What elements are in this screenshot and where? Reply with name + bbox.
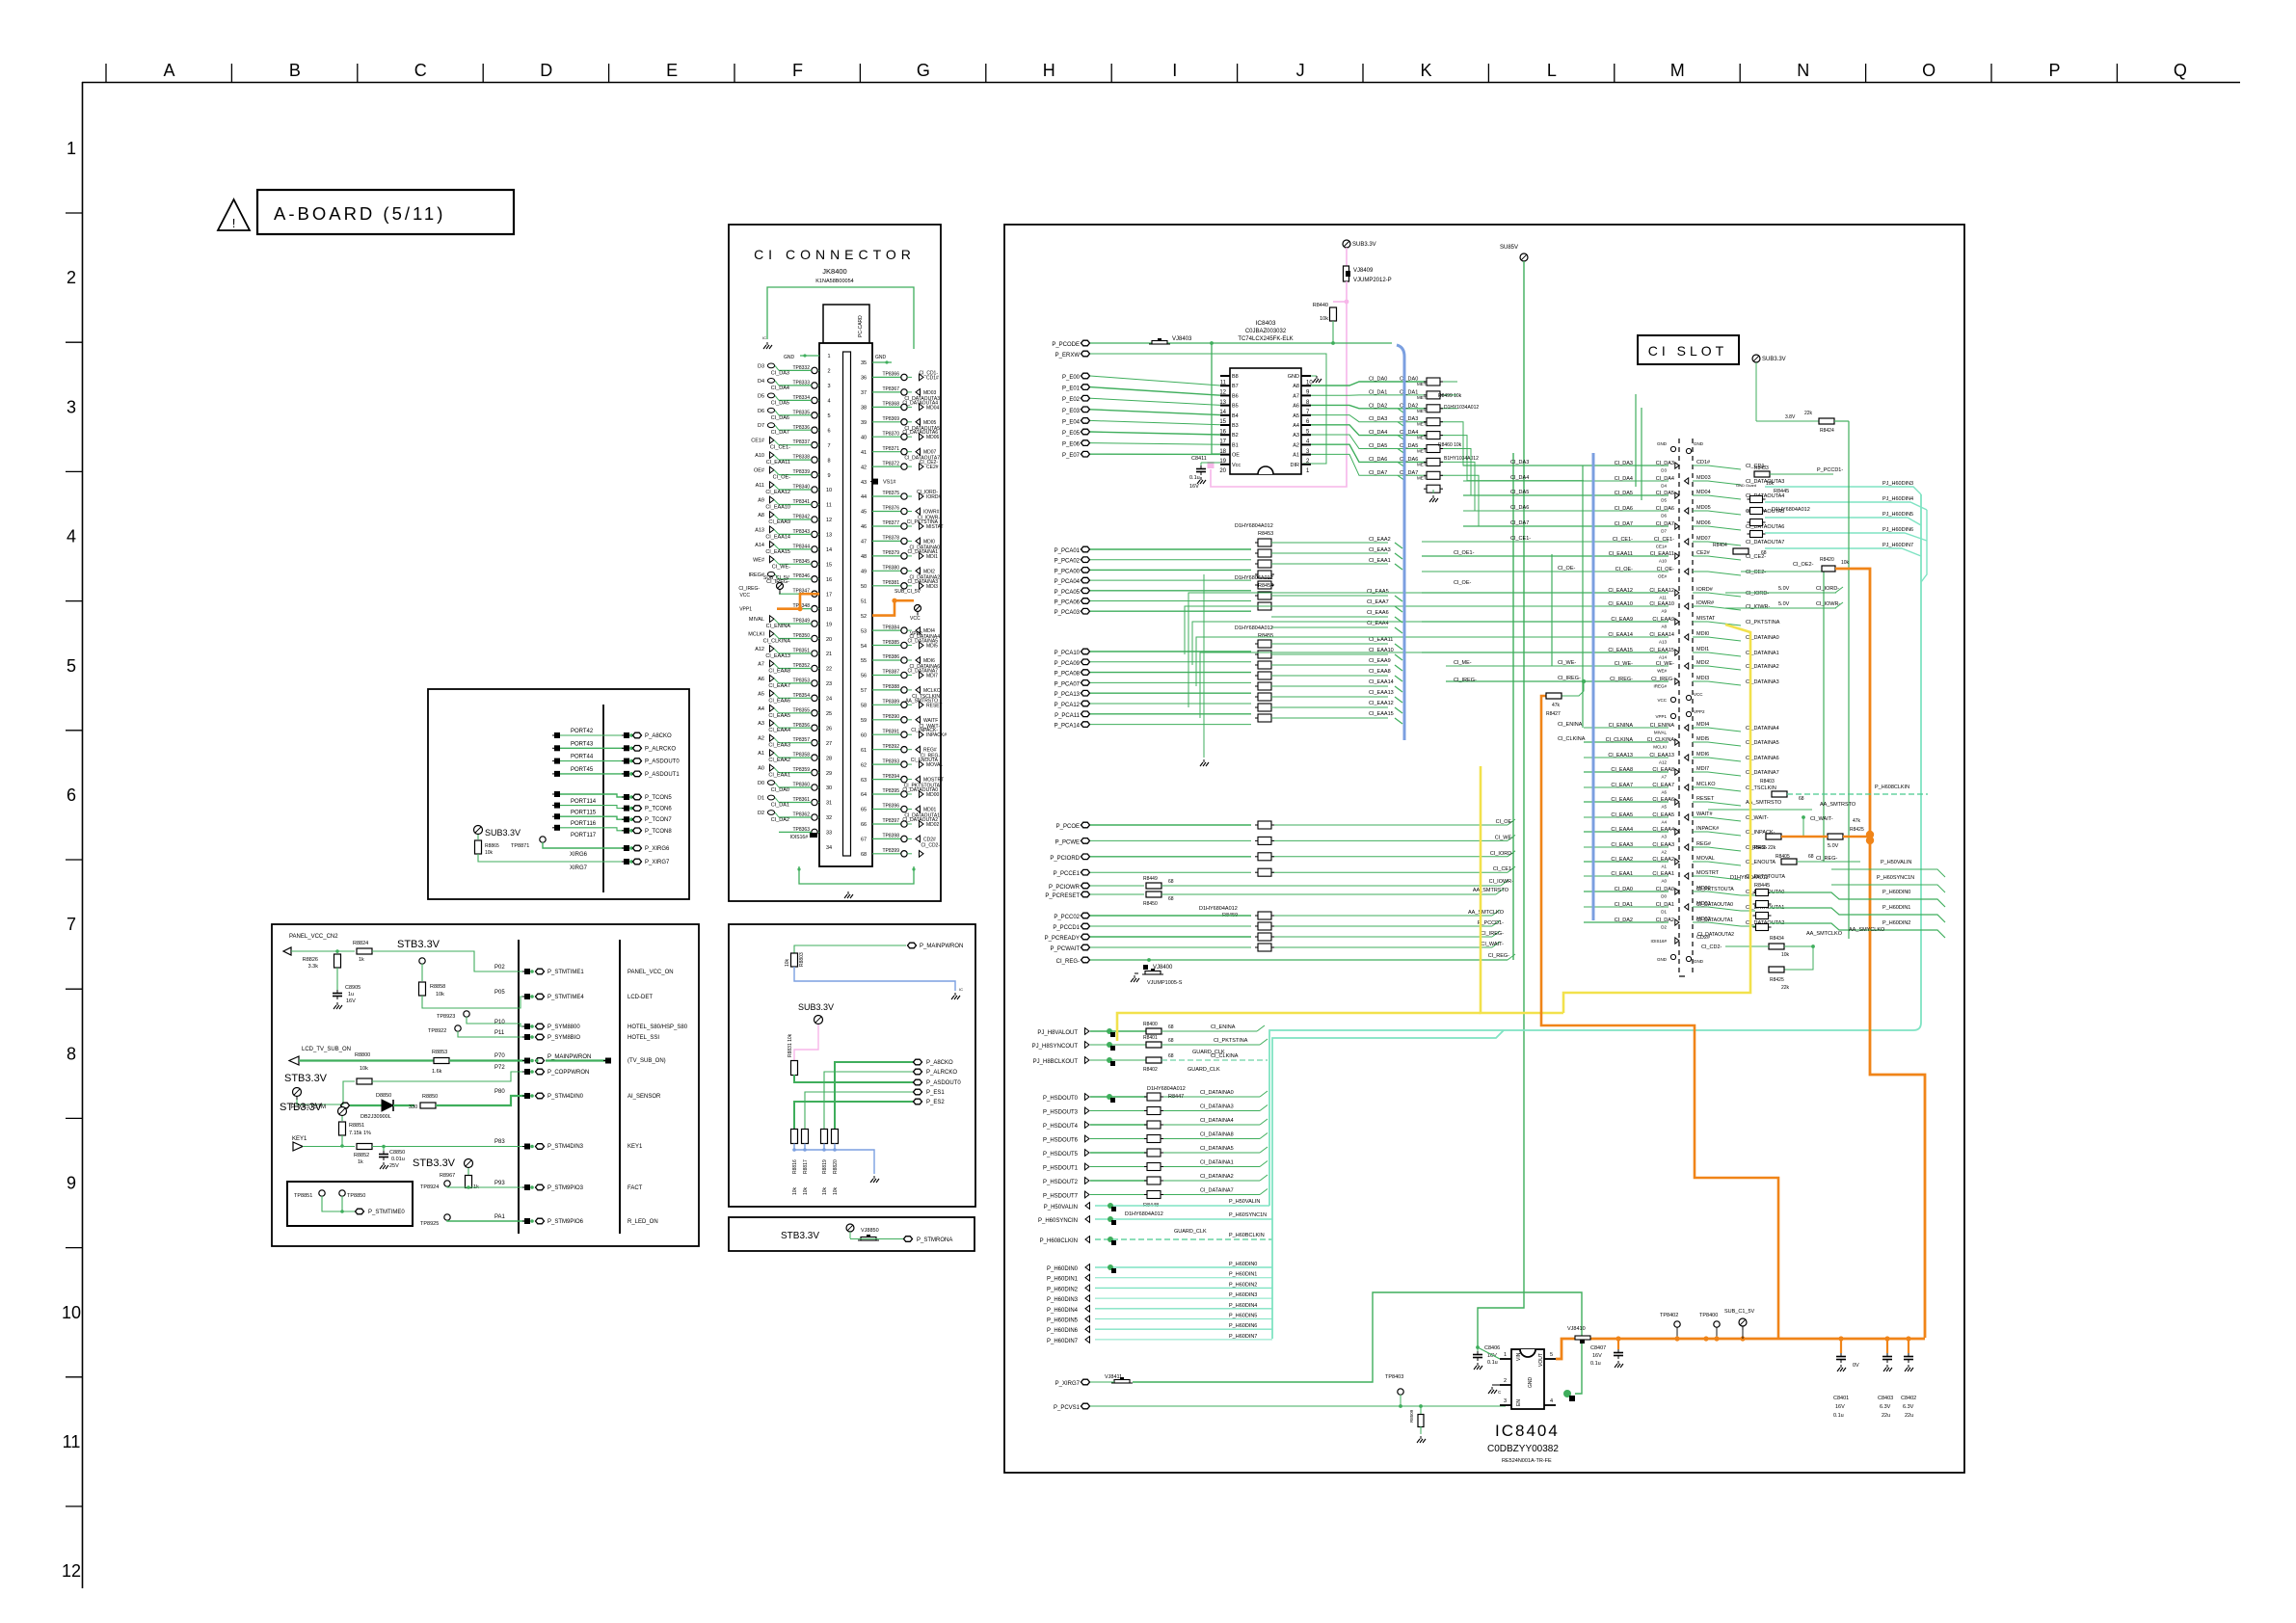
svg-text:CI_ENINA: CI_ENINA [1211,1024,1236,1030]
svg-text:R8404: R8404 [1713,543,1727,548]
svg-text:SU85V: SU85V [1500,245,1518,251]
svg-text:CI_DA4: CI_DA4 [1656,476,1674,482]
svg-text:MOSTRT: MOSTRT [1696,870,1720,876]
svg-text:R8824: R8824 [353,941,368,946]
svg-text:TP8355: TP8355 [792,707,810,713]
svg-text:CI_EAA15: CI_EAA15 [1608,648,1633,653]
svg-text:TP8395: TP8395 [882,788,899,794]
svg-text:D0: D0 [758,781,764,786]
svg-text:D4: D4 [1661,484,1667,489]
svg-text:TP8403: TP8403 [1385,1374,1403,1380]
buffer row CI_DA0 [1584,891,1669,892]
svg-text:D1: D1 [1661,910,1667,915]
svg-text:1: 1 [827,354,830,359]
svg-text:3.3k: 3.3k [308,964,319,970]
orange net right 5V [1835,569,1925,1338]
buffer row CI_CE1- [1422,541,1669,543]
IC8403 pin 11 B8 [1220,375,1230,377]
svg-text:1.6k: 1.6k [432,1069,442,1075]
resistor 10k P72 [357,1078,372,1084]
svg-text:P_HSDOUT0: P_HSDOUT0 [1043,1096,1079,1102]
wire P_XRSTSTM to diode [350,1104,382,1106]
port row PORT45 [554,771,560,777]
svg-text:TP8386: TP8386 [882,654,899,660]
SUB3.3V right power [1752,355,1760,362]
svg-text:0.1u: 0.1u [1487,1360,1498,1366]
P_STMTIME0 pin [356,1209,364,1214]
svg-text:D2: D2 [758,811,764,816]
svg-text:P_H60DIN5: P_H60DIN5 [1047,1318,1079,1324]
svg-text:B2: B2 [1232,433,1239,439]
svg-text:CI_DATAINA8: CI_DATAINA8 [1200,1132,1234,1138]
svg-text:TP8352: TP8352 [792,663,810,669]
SU85V vertical feed [1478,261,1524,1347]
svg-text:P_E05: P_E05 [1062,431,1081,437]
resistor R8967 [467,1168,469,1175]
svg-text:CI_DA3: CI_DA3 [1615,461,1633,466]
green bundle vertical B [1582,466,1584,728]
CI_EAA4 wire [1271,626,1388,628]
svg-text:CI_DA6: CI_DA6 [1369,457,1387,463]
svg-text:15: 15 [826,563,832,569]
svg-text:CI_WAIT-: CI_WAIT- [1746,815,1769,821]
svg-text:GND: GND [1694,959,1704,964]
svg-text:P_HSDOUT2: P_HSDOUT2 [1043,1180,1079,1185]
svg-text:47k: 47k [1552,703,1561,708]
svg-text:TP8367: TP8367 [882,386,899,392]
svg-text:CI_EAA11: CI_EAA11 [1609,551,1633,557]
svg-text:VJ8850: VJ8850 [861,1228,879,1234]
IC8403 pin 15 B4 [1220,414,1230,416]
svg-text:AA_SMYCLKO: AA_SMYCLKO [1849,927,1885,933]
svg-text:A2: A2 [1661,850,1667,855]
svg-text:CI_IORD-: CI_IORD- [917,490,938,495]
svg-text:TP8399: TP8399 [882,848,899,854]
svg-text:45: 45 [861,510,867,516]
svg-text:P_STMRONA: P_STMRONA [917,1237,952,1243]
svg-text:VPP2: VPP2 [1694,709,1705,714]
svg-text:P_H60DIN6: P_H60DIN6 [1229,1323,1257,1329]
svg-text:D1HY6804A012: D1HY6804A012 [1235,575,1273,581]
P_H60DIN0-2 wires right [1770,890,1945,938]
buffer row CI_EAA15 [1422,652,1669,653]
buffer row CI_CLKINA [1584,741,1669,743]
buffer row CI_EAA7 [1584,786,1669,788]
svg-text:CI_EAA12: CI_EAA12 [765,490,790,495]
svg-text:TP8363: TP8363 [792,827,810,833]
wire P70 continues to square [546,1059,605,1061]
svg-text:SUB3.3V: SUB3.3V [1762,357,1786,362]
svg-text:CI_EAA10: CI_EAA10 [1608,601,1633,607]
svg-text:CI_CE1-: CI_CE1- [1613,537,1633,543]
svg-text:VJ8403: VJ8403 [1172,336,1192,342]
svg-text:CI_EAA1: CI_EAA1 [1369,558,1391,564]
svg-text:5: 5 [67,656,76,676]
svg-text:PJ_H8BCLKOUT: PJ_H8BCLKOUT [1033,1059,1079,1065]
svg-text:CI_ENOUTA: CI_ENOUTA [911,758,939,763]
svg-text:R8425: R8425 [1770,977,1784,983]
svg-text:R8447: R8447 [1168,1094,1184,1100]
VCC pins mid [1670,697,1675,702]
svg-text:40: 40 [861,435,867,440]
svg-text:P_E07: P_E07 [1062,453,1081,459]
ground bottom of connector [847,891,849,894]
svg-text:CI_EAA4: CI_EAA4 [768,728,790,733]
svg-text:MCLKI: MCLKI [748,632,764,638]
svg-text:1k: 1k [358,1159,363,1165]
svg-text:IC8403: IC8403 [1256,320,1276,327]
svg-text:TP8385: TP8385 [882,640,899,646]
svg-text:CI_EAA12: CI_EAA12 [1608,588,1633,594]
test point sub box [287,1182,413,1226]
pin 3 TP and wire [812,397,817,403]
svg-text:CI_DA7: CI_DA7 [1656,521,1674,527]
svg-text:P80: P80 [494,1089,505,1095]
svg-text:CI_EAA1: CI_EAA1 [768,773,790,779]
svg-text:IC8404: IC8404 [1495,1422,1560,1440]
wire to PA1 [447,1220,525,1221]
P_H60DIN2 right wire [1770,923,1945,938]
svg-text:P_STM4DIN0: P_STM4DIN0 [547,1094,584,1100]
svg-text:R8851: R8851 [349,1123,364,1129]
svg-text:P_H60DIN4: P_H60DIN4 [1229,1303,1257,1309]
svg-text:P_PCA13: P_PCA13 [1055,692,1081,698]
svg-text:A5: A5 [1661,805,1667,810]
svg-text:D1HY6804A012: D1HY6804A012 [1235,523,1273,529]
svg-text:6: 6 [67,785,76,805]
svg-text:D3: D3 [1661,468,1667,473]
svg-text:P_H60DIN7: P_H60DIN7 [1229,1334,1257,1340]
pin 14 TP and wire [812,561,817,567]
wire TP8923 to P10 [467,1017,525,1026]
svg-text:MCLKI: MCLKI [1653,745,1667,750]
svg-text:P93: P93 [494,1181,505,1186]
pin 24 TP and wire [812,710,817,716]
svg-text:D4: D4 [758,379,764,385]
pin 62 wire [872,763,901,765]
svg-text:CI_EAA7: CI_EAA7 [768,683,790,689]
CI_DA7 wire [1311,454,1426,475]
svg-text:P_H60DIN2: P_H60DIN2 [1047,1287,1079,1292]
svg-text:21: 21 [826,652,832,657]
svg-text:P11: P11 [494,1030,505,1036]
svg-text:P_HSDOUT5: P_HSDOUT5 [1043,1152,1079,1157]
CI_EAA12 wire [1271,706,1388,708]
svg-text:D5: D5 [1661,498,1667,503]
svg-text:CI_WE-: CI_WE- [1558,660,1576,666]
ruler column ticks [105,64,107,82]
svg-text:CI_EAA7: CI_EAA7 [1652,783,1674,788]
svg-text:P_H60DIN4: P_H60DIN4 [1047,1308,1079,1314]
pin 2 TP and wire [812,383,817,388]
svg-text:CI_DA1: CI_DA1 [1400,389,1418,395]
svg-text:CI_EAA11: CI_EAA11 [766,460,790,466]
svg-text:CI_EAA8: CI_EAA8 [768,669,790,675]
buffer row CI_OE- [1422,571,1669,572]
svg-text:P_PCIOWR: P_PCIOWR [1049,885,1081,891]
svg-text:STB3.3V: STB3.3V [284,1073,328,1084]
svg-text:P_TCON7: P_TCON7 [645,817,672,823]
buffer row CI_DA5 [1463,494,1669,496]
svg-text:CI_DA2: CI_DA2 [1400,403,1418,409]
CI_EAA13 wire [1271,696,1388,698]
svg-text:D1HY6804A012: D1HY6804A012 [1125,1211,1163,1217]
svg-text:P_H60DIN3: P_H60DIN3 [1047,1297,1079,1303]
pin 10 TP and wire [812,501,817,507]
PJ_H60DIN3 bend labels right edge [0,0,1,1]
svg-text:CI_PKTSTINA: CI_PKTSTINA [907,519,939,525]
warning triangle [218,200,250,230]
P_MAINPWRON pin [908,943,917,948]
svg-text:CI_CLKINA: CI_CLKINA [1606,737,1634,743]
svg-text:R8403: R8403 [1760,779,1775,785]
svg-text:3: 3 [827,384,830,389]
buffer row CI_EAA2 [1584,861,1669,863]
svg-text:R8858: R8858 [430,984,445,990]
svg-text:C8905: C8905 [345,985,360,991]
pin 56 wire [872,675,901,677]
title box A-BOARD (5/11) [257,190,514,234]
svg-text:P_PCWAIT: P_PCWAIT [1051,946,1081,952]
svg-text:OE#: OE# [754,468,765,474]
C8406 capacitor [1476,1345,1480,1349]
svg-text:GUARD_CLK: GUARD_CLK [1174,1229,1207,1235]
svg-text:CI_IREG-: CI_IREG- [1481,931,1504,937]
svg-text:CI_DATAOUTA4: CI_DATAOUTA4 [902,400,938,406]
svg-text:CI_EAA13: CI_EAA13 [765,653,790,659]
pin 36 wire [872,376,901,378]
svg-text:TP8925: TP8925 [420,1221,439,1227]
svg-text:P_PCA05: P_PCA05 [1055,590,1081,596]
far left feed labels [1454,550,1477,683]
svg-text:39: 39 [861,420,867,426]
pin 48 wire [872,555,901,557]
svg-text:TP8341: TP8341 [792,499,810,505]
svg-text:59: 59 [861,718,867,724]
pin 63 wire [872,779,901,781]
svg-text:CI_DA5: CI_DA5 [1510,490,1529,495]
svg-text:TC74LCX245FK-ELK: TC74LCX245FK-ELK [1238,336,1293,342]
svg-text:P_H60BCLKIN: P_H60BCLKIN [1229,1233,1265,1238]
svg-text:P_PCA08: P_PCA08 [1055,672,1081,678]
svg-text:5.0V: 5.0V [1828,843,1839,849]
C8403 capacitor 6.3V 22u [1884,1336,1889,1341]
svg-text:P_ASDOUT0: P_ASDOUT0 [926,1080,961,1086]
svg-text:TP8396: TP8396 [882,804,899,810]
svg-text:M: M [1670,61,1685,80]
svg-text:VPP2: VPP2 [910,631,922,637]
svg-text:3.8V: 3.8V [1785,414,1796,420]
buffer row CI_DA6 [1463,510,1669,512]
svg-text:CI_DA1: CI_DA1 [1656,902,1674,908]
svg-text:CI_CD1-: CI_CD1- [920,370,939,376]
svg-text:A8: A8 [1661,625,1667,629]
wire P_MAINPWRON [794,945,906,953]
svg-text:P_H50VALIN: P_H50VALIN [1229,1199,1260,1205]
svg-text:CI_CE2-: CI_CE2- [920,460,939,466]
svg-text:EN: EN [1516,1399,1522,1406]
svg-text:P_PCVS1: P_PCVS1 [1054,1405,1081,1411]
svg-text:10k: 10k [485,850,494,856]
svg-text:36: 36 [861,376,867,382]
svg-text:CI_EAA5: CI_EAA5 [1367,589,1389,595]
svg-text:CI_DA1: CI_DA1 [1615,902,1633,908]
svg-text:D1HY1034A012: D1HY1034A012 [1444,405,1479,411]
svg-text:0.01u: 0.01u [391,1157,405,1162]
CI_EAA1 wire [1271,563,1388,565]
svg-text:P05: P05 [494,990,505,996]
svg-text:P_PCA06: P_PCA06 [1055,600,1081,606]
pin 57 wire [872,689,901,691]
svg-text:P70: P70 [494,1053,505,1059]
svg-text:TP8351: TP8351 [792,649,810,654]
svg-text:CI_DA6: CI_DA6 [1510,505,1529,511]
pin 7 TP and wire [812,457,817,463]
vertical to OE pin [1212,343,1220,454]
svg-text:A12: A12 [755,647,764,652]
svg-text:GND: GND [1694,441,1704,446]
svg-text:CE2#: CE2# [1696,550,1711,556]
svg-text:P_COPPWRON: P_COPPWRON [547,1070,589,1076]
svg-text:CI_DATAINA3: CI_DATAINA3 [1200,1104,1234,1110]
svg-text:7: 7 [67,915,76,934]
svg-text:P_ERXW: P_ERXW [1055,353,1081,359]
svg-text:CI_CD2-: CI_CD2- [1701,945,1722,950]
svg-text:CI_EAA9: CI_EAA9 [1369,658,1391,664]
svg-text:C8402: C8402 [1901,1396,1916,1401]
card edge top pins [1670,446,1675,451]
svg-text:CI_DATAOUTA0: CI_DATAOUTA0 [902,787,938,793]
svg-text:CI_EAA5: CI_EAA5 [1611,812,1633,818]
svg-text:R8424: R8424 [1820,428,1834,434]
mint bus vertical right A [1269,494,1921,1206]
svg-text:J: J [1296,61,1305,80]
svg-text:10k: 10k [833,1186,839,1195]
svg-text:CI_DA0: CI_DA0 [1615,887,1633,892]
border ruler top line [82,82,2240,84]
svg-text:INPACK#: INPACK# [1696,826,1720,832]
svg-text:TP8851: TP8851 [294,1193,312,1199]
svg-text:CI_EAA2: CI_EAA2 [1369,537,1391,543]
svg-text:CI_REG-: CI_REG- [1056,959,1080,965]
P_PCOE group rows [1050,819,1515,877]
svg-text:GND: GND [784,355,795,360]
svg-text:P_H60DIN3: P_H60DIN3 [1229,1292,1257,1298]
CI_DA1 wire [1311,394,1426,396]
svg-text:IORD#: IORD# [1696,587,1714,593]
resistor R8852 1k [357,1144,372,1150]
svg-text:4: 4 [67,527,76,546]
svg-text:P_SYM8800: P_SYM8800 [547,1024,580,1030]
svg-text:P_TCON5: P_TCON5 [645,795,672,801]
IC8404 body [1511,1349,1544,1409]
svg-text:P_ASDOUT1: P_ASDOUT1 [645,772,680,778]
svg-text:PORT45: PORT45 [571,767,594,773]
svg-text:CI_OE1-: CI_OE1- [1454,550,1475,556]
svg-text:VCC: VCC [739,593,750,599]
P_E00-E07 rows [1062,373,1220,459]
pink net vertical [1211,281,1347,487]
svg-text:CI_EAA13: CI_EAA13 [1608,753,1633,758]
svg-text:CI_EAA4: CI_EAA4 [1652,827,1674,833]
left feed labels [1510,460,1586,742]
svg-text:17: 17 [826,592,832,598]
svg-text:CI_DA7: CI_DA7 [771,430,789,436]
svg-text:A8: A8 [758,513,764,519]
CI_EAA14 wire [1271,685,1388,687]
svg-text:TP8393: TP8393 [882,758,899,764]
svg-text:A7: A7 [1661,775,1667,780]
svg-text:12: 12 [826,518,832,523]
PORT114-117 rows [552,791,672,838]
svg-text:10k: 10k [792,1186,798,1195]
svg-text:STB3.3V: STB3.3V [413,1157,456,1169]
svg-text:CI_CE1-: CI_CE1- [1493,866,1513,872]
svg-text:P_E04: P_E04 [1062,419,1081,425]
port row PORT42 [554,732,560,738]
buffer row CI_ENINA [1584,727,1669,729]
pin4 terminal [1563,1390,1571,1397]
svg-text:GND: GND [1528,1377,1534,1389]
IC8403 pin 14 B5 [1220,405,1230,407]
svg-text:P_STM4DIN3: P_STM4DIN3 [547,1144,584,1150]
svg-text:33: 33 [826,831,832,837]
svg-text:0.1u: 0.1u [1833,1413,1844,1419]
pink wire SUB3.3V to VJ8409 [1346,248,1348,266]
IC8403 pin 2 A1 [1301,454,1311,456]
svg-text:P_H50VALIN: P_H50VALIN [1044,1205,1078,1211]
svg-text:CI_IORD-: CI_IORD- [1816,586,1839,592]
blue wire R8803 to ground [794,967,955,991]
svg-text:63: 63 [861,778,867,784]
R8509 resistor [1419,1404,1423,1408]
svg-text:TP8356: TP8356 [792,723,810,729]
svg-text:R8826: R8826 [303,957,318,963]
svg-text:KEY1: KEY1 [627,1144,643,1150]
svg-text:CI_DA3: CI_DA3 [771,370,789,376]
svg-text:6.3V: 6.3V [1880,1404,1891,1410]
svg-text:55: 55 [861,658,867,664]
svg-text:CI_CD2-: CI_CD2- [921,842,941,848]
XIRG7 wire [478,854,625,862]
svg-text:TP8380: TP8380 [882,566,899,572]
svg-text:I: I [1172,61,1177,80]
svg-text:CI_DA1: CI_DA1 [1369,389,1387,395]
svg-text:10k: 10k [822,1186,828,1195]
resistor R8449 68 [1146,883,1161,889]
IC8403 pin 4 A3 [1301,434,1311,436]
svg-text:MD07: MD07 [1696,536,1711,542]
pin 59 wire [872,719,901,721]
svg-text:CI_OE-: CI_OE- [1496,819,1514,825]
svg-text:0V: 0V [1853,1363,1859,1369]
svg-text:D5: D5 [758,393,764,399]
svg-text:STB3.3V: STB3.3V [280,1102,323,1113]
svg-text:A9: A9 [1661,609,1667,614]
svg-text:TP8871: TP8871 [511,843,529,849]
resistor R8865 10k [477,835,479,839]
svg-text:CI_WE-: CI_WE- [1615,661,1633,667]
jumper VJ8409 VJUMP2012-P [1344,266,1349,281]
svg-text:MDI1: MDI1 [1696,647,1709,652]
CI_IORD- wire [1271,856,1508,858]
svg-text:CI_EAA14: CI_EAA14 [1369,679,1394,685]
IC8403 GND pin ground [1311,375,1317,377]
svg-text:TP8377: TP8377 [882,520,899,526]
buffer row CI_EAA5 [1584,816,1669,818]
svg-text:O: O [1922,61,1936,80]
svg-text:MD06: MD06 [1696,520,1711,526]
